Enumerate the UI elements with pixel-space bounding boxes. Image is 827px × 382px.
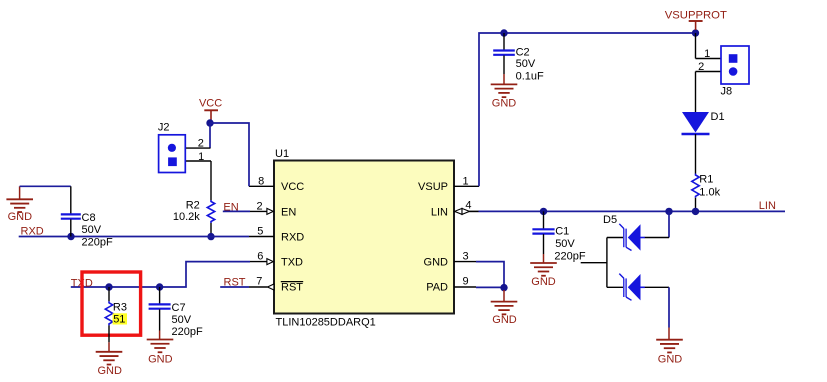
pin 8 stub (VCC) bbox=[249, 175, 274, 187]
junction C8 / RXD bbox=[67, 233, 74, 240]
connector J8 bbox=[696, 46, 750, 98]
wire R1 to LIN net bbox=[695, 198, 697, 212]
svg-text:VSUPPROT: VSUPPROT bbox=[665, 9, 727, 21]
pin 1 stub (VSUP) bbox=[454, 175, 479, 187]
wire R2 to RXD net bbox=[210, 223, 212, 237]
svg-text:220pF: 220pF bbox=[172, 326, 203, 338]
ground below C7 bbox=[147, 340, 174, 366]
resistor R3 51 bbox=[105, 301, 127, 325]
svg-text:50V: 50V bbox=[555, 238, 575, 250]
svg-text:LIN: LIN bbox=[759, 200, 776, 212]
wire J8 pin 2 down to D1 bbox=[695, 72, 697, 113]
ground below R3 bbox=[96, 352, 123, 377]
svg-text:C2: C2 bbox=[516, 46, 530, 58]
wire TXD to R3 bbox=[108, 287, 110, 301]
svg-text:220pF: 220pF bbox=[554, 251, 585, 263]
resistor R1 1.0k bbox=[692, 173, 721, 198]
svg-text:LIN: LIN bbox=[431, 206, 448, 218]
svg-text:J2: J2 bbox=[158, 122, 170, 134]
ground below D5 bbox=[656, 340, 683, 366]
diode D1 bbox=[682, 111, 725, 134]
capacitor C1 220pF bbox=[532, 211, 585, 263]
wire GND net from pin 3 and pin 9 (PAD) bbox=[476, 262, 504, 288]
junction LIN / C1 bbox=[540, 208, 547, 215]
capacitor C2 0.1uF bbox=[493, 33, 544, 84]
capacitor C7 220pF bbox=[149, 302, 203, 340]
svg-text:GND: GND bbox=[148, 354, 173, 366]
junction PAD/GND node bbox=[500, 284, 507, 291]
svg-text:RXD: RXD bbox=[281, 231, 304, 243]
svg-text:51: 51 bbox=[113, 314, 125, 326]
svg-text:R3: R3 bbox=[113, 302, 127, 314]
pin 9 stub (PAD) bbox=[454, 276, 476, 288]
svg-text:1: 1 bbox=[704, 48, 710, 60]
IC U1 TLIN10285DDARQ1 bbox=[274, 148, 454, 328]
svg-text:GND: GND bbox=[8, 211, 33, 223]
svg-text:2: 2 bbox=[698, 61, 704, 73]
svg-text:R1: R1 bbox=[699, 173, 713, 185]
svg-text:GND: GND bbox=[531, 276, 556, 288]
svg-text:GND: GND bbox=[658, 354, 683, 366]
svg-text:GND: GND bbox=[424, 257, 449, 269]
wire D5 to ground bbox=[668, 287, 670, 339]
wire VCC to J2 pin 2 bbox=[209, 123, 211, 148]
svg-text:RST: RST bbox=[281, 282, 303, 294]
svg-text:2: 2 bbox=[256, 200, 262, 212]
svg-text:50V: 50V bbox=[172, 314, 192, 326]
ground below PAD bbox=[491, 290, 518, 326]
wire R3 to ground bbox=[108, 325, 110, 351]
junction node at C2 tap bbox=[500, 29, 507, 36]
svg-text:J8: J8 bbox=[721, 86, 733, 98]
wire RST net bbox=[220, 286, 249, 288]
wire VCC to pin 8 bbox=[210, 123, 249, 186]
junction VCC node bbox=[206, 119, 213, 126]
TVS diode D5 (dual) bbox=[581, 211, 669, 300]
svg-text:VCC: VCC bbox=[281, 181, 304, 193]
svg-text:PAD: PAD bbox=[426, 282, 448, 294]
svg-text:VSUP: VSUP bbox=[418, 181, 448, 193]
wire TXD to C7 bbox=[159, 287, 161, 304]
svg-text:3: 3 bbox=[462, 251, 468, 263]
highlight box around R3 bbox=[82, 272, 141, 335]
junction node VSUPPROT / J8 bbox=[692, 29, 699, 36]
pin 7 stub (RST) with output arrow bbox=[249, 276, 274, 290]
pin 5 stub (RXD) bbox=[249, 226, 274, 238]
pin 6 stub (TXD) with input arrow bbox=[250, 251, 273, 265]
ground below C2 bbox=[491, 84, 518, 109]
svg-text:7: 7 bbox=[256, 276, 262, 288]
svg-text:TLIN10285DDARQ1: TLIN10285DDARQ1 bbox=[276, 316, 376, 328]
svg-text:4: 4 bbox=[465, 200, 471, 212]
capacitor C8 220pF bbox=[61, 212, 113, 249]
svg-text:1: 1 bbox=[462, 175, 468, 187]
svg-text:1: 1 bbox=[198, 151, 204, 163]
wire VSUP net: pin 1 up and across the top bbox=[479, 33, 696, 186]
power symbol VCC bbox=[199, 97, 222, 120]
junction R2 / RXD bbox=[207, 233, 214, 240]
svg-text:R2: R2 bbox=[186, 199, 200, 211]
pin 2 stub (EN) with input arrow bbox=[250, 200, 273, 214]
wire LIN net (horizontal) bbox=[469, 210, 785, 212]
wire J2 pin 1 down to R2 bbox=[210, 161, 212, 200]
wire TXD net from pin 6 bbox=[71, 262, 250, 287]
svg-text:C1: C1 bbox=[555, 225, 569, 237]
ground top-left bbox=[6, 186, 33, 223]
svg-text:C8: C8 bbox=[82, 212, 96, 224]
wire EN net bbox=[223, 210, 250, 212]
power symbol VSUPPROT bbox=[665, 9, 727, 30]
wire junction to J8 pin 1 bbox=[695, 33, 697, 59]
svg-text:U1: U1 bbox=[275, 148, 289, 160]
svg-text:D1: D1 bbox=[711, 111, 725, 123]
svg-text:C7: C7 bbox=[172, 302, 186, 314]
svg-text:5: 5 bbox=[257, 226, 263, 238]
svg-text:RXD: RXD bbox=[21, 225, 44, 237]
svg-text:220pF: 220pF bbox=[82, 237, 113, 249]
pin 4 stub (LIN) with bidirectional arrow bbox=[454, 200, 479, 215]
svg-text:9: 9 bbox=[462, 276, 468, 288]
wire ground to C8 bbox=[20, 186, 71, 214]
wire D1 to R1 bbox=[695, 134, 697, 174]
junction R3 / TXD bbox=[105, 283, 112, 290]
svg-text:8: 8 bbox=[258, 175, 264, 187]
svg-text:VCC: VCC bbox=[199, 97, 222, 109]
svg-text:2: 2 bbox=[198, 137, 204, 149]
svg-text:50V: 50V bbox=[516, 58, 536, 70]
svg-text:50V: 50V bbox=[82, 224, 102, 236]
resistor R2 10.2k bbox=[173, 199, 215, 223]
svg-text:0.1uF: 0.1uF bbox=[516, 71, 544, 83]
svg-text:10.2k: 10.2k bbox=[173, 211, 200, 223]
junction LIN / R1 bbox=[692, 208, 699, 215]
wire RXD net bbox=[19, 236, 249, 238]
pin 3 stub (GND) bbox=[454, 251, 476, 263]
svg-text:GND: GND bbox=[492, 97, 517, 109]
svg-text:TXD: TXD bbox=[281, 257, 303, 269]
ground below C1 bbox=[530, 263, 557, 288]
svg-text:GND: GND bbox=[97, 365, 122, 377]
svg-text:EN: EN bbox=[281, 206, 296, 218]
junction C7 / TXD bbox=[156, 283, 163, 290]
svg-text:1.0k: 1.0k bbox=[699, 187, 720, 199]
junction LIN / D5 bbox=[665, 208, 672, 215]
svg-text:GND: GND bbox=[492, 314, 517, 326]
svg-text:D5: D5 bbox=[603, 214, 617, 226]
svg-text:6: 6 bbox=[257, 251, 263, 263]
connector J2 bbox=[158, 122, 211, 173]
